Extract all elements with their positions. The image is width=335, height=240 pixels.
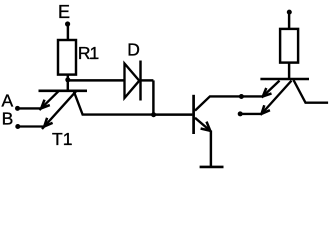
transistor Q2 base bar: [192, 95, 195, 134]
label R1 serif foot of 1: [90, 58, 97, 60]
T1 emitter 2 line: [42, 91, 76, 129]
T1 emitter 2 arrowhead: [44, 118, 52, 127]
terminal dot B: [15, 124, 20, 129]
wire emitter to ground: [210, 131, 212, 167]
transistor T1 base bar: [39, 90, 88, 93]
node junction diode to base wire: [151, 112, 156, 117]
T2 collector polyline: [294, 80, 329, 103]
diode D cathode bar: [139, 61, 141, 101]
ground bar: [200, 166, 224, 169]
wire base of Q2: [154, 113, 193, 115]
terminal dot E: [65, 21, 70, 26]
T2 emitter 1 arrowhead: [263, 88, 272, 97]
svg-text:E: E: [58, 2, 70, 22]
label T1 serif foot of 1: [65, 143, 71, 145]
T2 emitter 2 arrowhead: [262, 105, 270, 114]
svg-text:B: B: [2, 108, 14, 128]
node junction under R1: [65, 77, 70, 82]
wire input A stub: [18, 107, 42, 109]
wire E to R1: [67, 24, 69, 40]
wire T2 bar to resistor R2: [288, 63, 290, 79]
terminal dot A: [15, 106, 20, 111]
resistor R1: [58, 40, 76, 75]
wire lower output stub: [240, 113, 261, 115]
svg-text:R1: R1: [78, 43, 99, 63]
T2 emitter 1 line: [262, 81, 280, 98]
T1 emitter 1 line: [39, 91, 58, 110]
diode D triangle: [125, 64, 140, 99]
wire R1 bottom to node: [67, 75, 69, 92]
T1 collector polyline: [74, 91, 154, 114]
terminal dot top right: [287, 10, 292, 15]
wire node to diode anode: [68, 79, 124, 81]
transistor T2 base bar: [260, 78, 309, 81]
svg-text:T1: T1: [52, 129, 72, 149]
resistor R2: [280, 29, 298, 63]
Q2 emitter line: [195, 118, 211, 132]
wire diode cathode to drop: [141, 79, 154, 81]
wire cathode drop vertical: [152, 80, 154, 114]
T1 emitter 1 arrowhead: [41, 100, 50, 109]
svg-text:D: D: [127, 39, 140, 59]
wire input B stub: [18, 125, 45, 127]
Q2 emitter arrowhead: [201, 122, 211, 131]
terminal dot lower output: [238, 111, 243, 116]
wire R2 top to terminal: [288, 12, 290, 29]
node junction on output wire: [239, 94, 244, 99]
T2 emitter 2 line: [261, 81, 292, 115]
Q2 collector polyline: [195, 96, 263, 110]
